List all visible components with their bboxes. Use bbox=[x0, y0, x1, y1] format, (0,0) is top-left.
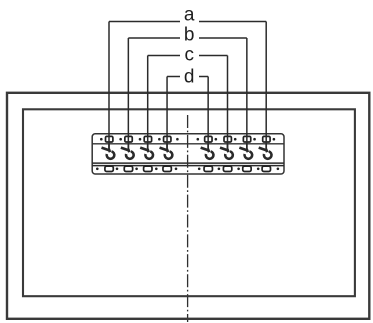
svg-text:d: d bbox=[184, 67, 195, 88]
svg-text:b: b bbox=[184, 25, 195, 46]
svg-text:c: c bbox=[184, 45, 194, 66]
svg-text:a: a bbox=[184, 5, 195, 26]
